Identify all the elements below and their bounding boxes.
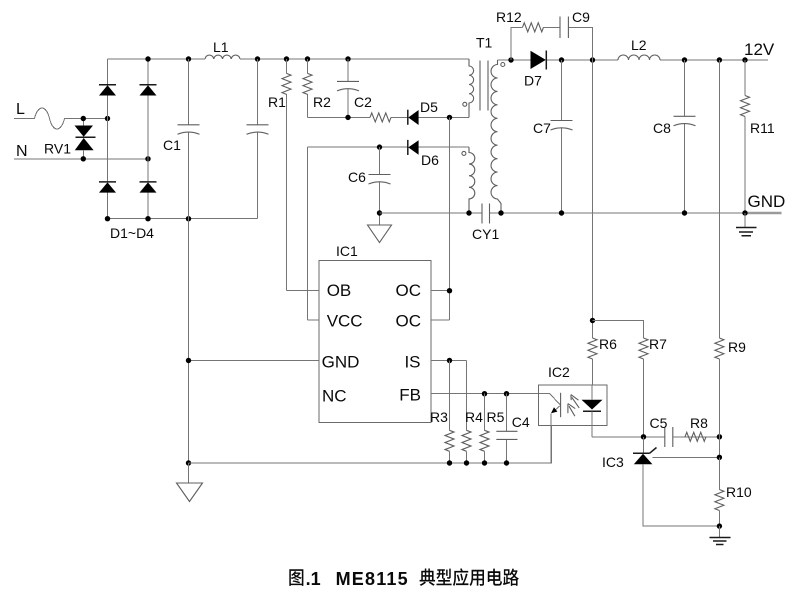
wire IC2 output line y436.8 <box>592 436 719 438</box>
svg-text:L2: L2 <box>631 37 647 53</box>
wire OC riser to D5 junction <box>449 117 451 320</box>
wire primary top rail <box>108 58 470 60</box>
svg-text:D6: D6 <box>421 152 439 168</box>
optocoupler IC2 LED <box>550 393 561 463</box>
svg-text:T1: T1 <box>476 35 493 51</box>
svg-text:12V: 12V <box>744 40 775 59</box>
capacitor CY1 <box>472 204 499 243</box>
svg-text:VCC: VCC <box>327 311 363 330</box>
ground (earth below R10) <box>710 526 731 544</box>
svg-text:RV1: RV1 <box>44 141 71 157</box>
svg-text:L: L <box>16 101 25 118</box>
svg-text:C9: C9 <box>572 9 590 25</box>
wire bridge left column <box>107 59 109 219</box>
capacitor C6 <box>348 147 391 213</box>
diode D4 (bridge bottom-right) <box>140 182 157 193</box>
pin VCC <box>308 311 363 330</box>
svg-text:R5: R5 <box>487 409 505 425</box>
capacitor C8 <box>653 60 696 213</box>
diode D6 <box>408 140 439 168</box>
svg-text:L1: L1 <box>213 39 229 55</box>
wire left column C1 to ground rail <box>188 219 190 463</box>
svg-text:IC3: IC3 <box>602 454 624 470</box>
svg-text:C2: C2 <box>354 94 372 110</box>
wire snubber line y117 <box>308 116 470 118</box>
pin OC bottom <box>396 311 450 330</box>
inductor L2 <box>618 37 660 60</box>
svg-text:OC: OC <box>396 281 422 300</box>
svg-text:R8: R8 <box>690 415 708 431</box>
svg-text:.1: .1 <box>306 569 321 589</box>
svg-text:ME8115: ME8115 <box>336 569 409 589</box>
junction: RV1 top on L wire <box>81 116 86 121</box>
wire IC3 ref line <box>652 456 719 458</box>
resistor R1 <box>268 59 291 291</box>
svg-text:R9: R9 <box>728 339 746 355</box>
svg-text:R11: R11 <box>750 120 775 136</box>
svg-text:C6: C6 <box>348 169 366 185</box>
resistor R10 <box>715 457 752 526</box>
svg-text:GND: GND <box>322 352 360 371</box>
resistor R3 <box>430 361 454 464</box>
svg-text:IC1: IC1 <box>336 243 358 259</box>
wire bridge right column <box>147 59 149 219</box>
wire secondary ground rail y213 <box>380 212 746 214</box>
svg-text:GND: GND <box>748 192 786 211</box>
node N input wire <box>14 143 148 160</box>
varistor RV1 <box>44 119 96 159</box>
wire VCC aux line y147 <box>308 146 470 148</box>
svg-text:NC: NC <box>322 387 347 406</box>
transformer T1 auxiliary winding <box>462 147 475 213</box>
svg-text:C8: C8 <box>653 120 671 136</box>
pin OB <box>287 281 352 300</box>
wire snubber branch R12 C9 <box>511 27 593 60</box>
svg-text:D5: D5 <box>420 99 438 115</box>
svg-text:R6: R6 <box>599 336 617 352</box>
svg-text:D7: D7 <box>524 73 542 89</box>
transformer T1 core <box>476 35 493 111</box>
pin IS <box>404 352 466 371</box>
capacitor C5 <box>650 415 673 447</box>
shunt regulator IC3 <box>602 437 719 526</box>
svg-text:R4: R4 <box>465 409 483 425</box>
resistor R6 <box>588 60 617 385</box>
wire secondary top rail with D7 gap <box>498 59 769 61</box>
optocoupler IC2 photodiode <box>582 385 603 437</box>
capacitor C1 <box>163 59 200 219</box>
pin OC top <box>396 281 450 300</box>
wire VCC riser <box>307 147 309 320</box>
wire primary bottom rail y463 <box>189 426 552 464</box>
capacitor C7 <box>533 60 573 213</box>
svg-text:C4: C4 <box>512 414 530 430</box>
op-amp IC1 controller box <box>319 243 431 423</box>
junction: RV1 bottom on N wire <box>81 156 86 161</box>
resistor R7 <box>593 321 668 437</box>
svg-text:R1: R1 <box>268 94 286 110</box>
resistor R4 <box>462 361 483 464</box>
transformer T1 secondary winding <box>491 60 505 213</box>
diode D7 <box>524 51 546 89</box>
diode D5 <box>408 99 438 125</box>
svg-text:IC2: IC2 <box>548 364 570 380</box>
junction: L wire to bridge left column <box>105 116 110 121</box>
capacitor C9 <box>560 9 590 38</box>
optocoupler IC2 light arrows <box>568 395 579 417</box>
svg-text:OC: OC <box>396 311 422 330</box>
ground (primary, below C6) <box>368 213 392 243</box>
svg-text:D1~D4: D1~D4 <box>110 225 154 241</box>
capacitor C4 <box>496 394 530 463</box>
resistor R9 <box>715 60 746 457</box>
caption 图.1 ME8115 典型应用电路 <box>289 568 519 589</box>
resistor R5 <box>480 394 505 463</box>
capacitor (second filter cap) <box>247 59 269 219</box>
node L input wire with flex squiggle <box>14 101 108 129</box>
svg-text:R3: R3 <box>430 409 448 425</box>
resistor R8 <box>685 415 708 441</box>
resistor R2 <box>303 59 331 117</box>
diode D2 (bridge top-right) <box>140 85 157 96</box>
pin FB <box>399 386 550 405</box>
svg-text:FB: FB <box>399 386 421 405</box>
svg-text:CY1: CY1 <box>472 226 499 242</box>
resistor R11 <box>741 60 775 213</box>
svg-text:C1: C1 <box>163 137 181 153</box>
svg-text:R10: R10 <box>726 484 752 500</box>
inductor L1 <box>205 39 240 59</box>
svg-text:IS: IS <box>404 352 420 371</box>
pin GND <box>189 352 360 371</box>
ground (secondary earth below GND) <box>736 213 757 236</box>
junction: N wire to bridge right column <box>145 156 150 161</box>
transformer T1 primary winding <box>463 59 474 117</box>
resistor R12 <box>496 9 544 32</box>
svg-text:R2: R2 <box>313 94 331 110</box>
capacitor C2 <box>337 59 372 117</box>
svg-text:C5: C5 <box>650 415 668 431</box>
svg-text:N: N <box>16 143 28 160</box>
wire bridge bottom rail <box>108 218 258 220</box>
svg-text:R12: R12 <box>496 9 522 25</box>
svg-text:OB: OB <box>327 281 352 300</box>
diode D1 (bridge top-left) <box>99 85 116 96</box>
resistor (snubber, unlabeled) <box>370 113 391 122</box>
ground (primary, below left rail) <box>177 463 203 502</box>
svg-text:C7: C7 <box>533 120 551 136</box>
diode D3 (bridge bottom-left) <box>99 182 116 193</box>
optocoupler IC2 box <box>539 364 608 426</box>
svg-text:R7: R7 <box>649 336 667 352</box>
